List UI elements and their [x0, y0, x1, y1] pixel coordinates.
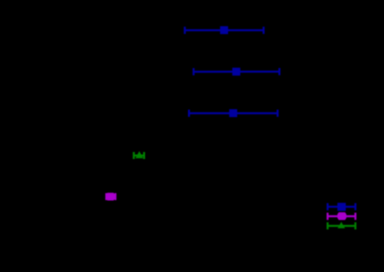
series 1 errorbar point 1 (blue square): [185, 26, 264, 34]
legend entry 2 sample (magenta hexagon): [328, 212, 356, 220]
legend entry 3 sample (green triangle): [328, 222, 356, 230]
legend entry 1 sample (blue square): [328, 203, 356, 211]
series 1 errorbar point 2 (blue square): [194, 68, 280, 76]
series 1 errorbar point 3 (blue square): [189, 109, 278, 117]
series 2 errorbar point (magenta hexagon): [106, 193, 115, 201]
series 3 errorbar point (green triangle): [134, 151, 144, 159]
